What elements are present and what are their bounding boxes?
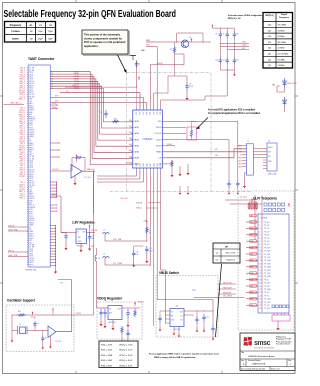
oscillator rail power arrow — [32, 311, 34, 315]
cap bank top cap 1 — [219, 31, 221, 34]
svg-text:Y1: Y1 — [19, 324, 21, 326]
svg-text:C4: C4 — [138, 64, 140, 66]
regulator input cap C30 — [61, 232, 66, 234]
svg-text:C17: C17 — [222, 60, 225, 62]
svg-text:D6: D6 — [129, 156, 131, 158]
wire NXT from connector to PHY top pin 4 — [50, 103, 147, 109]
svg-text:Q1: Q1 — [189, 37, 191, 39]
svg-text:This portion of the schematic: This portion of the schematic — [84, 33, 121, 37]
regulator output cap C31 — [89, 233, 91, 237]
series resistor R10 on data line — [112, 120, 119, 122]
svg-text:RXD2: RXD2 — [29, 176, 33, 178]
svg-text:NET: NET — [250, 247, 253, 249]
connector J1 body — [28, 65, 50, 267]
svg-text:NC1: NC1 — [29, 152, 32, 154]
svg-text:5V0_VBUS: 5V0_VBUS — [223, 296, 233, 298]
R12 note leader arrow — [197, 118, 209, 130]
svg-text:NC2: NC2 — [29, 154, 32, 156]
connector J1 left net labels cluster 1 — [19, 68, 25, 101]
svg-text:TXD0: TXD0 — [29, 256, 33, 258]
svg-text:RX_ER: RX_ER — [19, 189, 25, 191]
svg-text:TXD0: TXD0 — [29, 167, 33, 169]
svg-text:TP_NC2: TP_NC2 — [264, 308, 271, 310]
svg-text:1uF: 1uF — [136, 254, 139, 256]
title block divider 2 — [240, 358, 295, 360]
application boundary dash-dot horizontal top — [127, 72, 212, 74]
note box: PHY peripheral application — [84, 32, 130, 56]
svg-text:15: 15 — [260, 267, 262, 269]
svg-text:MDIO_0: MDIO_0 — [19, 114, 25, 116]
output cap C20 — [196, 316, 198, 319]
svg-text:TP_D5: TP_D5 — [264, 238, 269, 240]
svg-text:VBUS_EN: VBUS_EN — [223, 292, 232, 294]
cap C13 on chip-bottom column — [133, 250, 135, 253]
svg-text:C21: C21 — [206, 317, 209, 319]
svg-text:2-3: 2-3 — [216, 260, 219, 262]
svg-text:MINI_USB: MINI_USB — [268, 174, 277, 176]
bundle A junction dots — [90, 127, 103, 165]
svg-text:TXD_1: TXD_1 — [20, 130, 25, 132]
svg-text:Output: Output — [281, 13, 288, 16]
VDDQ feed ferrite bead L3 — [96, 248, 98, 255]
J3 pin labels — [268, 147, 273, 163]
svg-text:R16 = 24k3: R16 = 24k3 — [101, 360, 113, 362]
horizontal wire to ULPI region — [230, 203, 262, 205]
svg-text:SH2: SH2 — [238, 164, 241, 166]
svg-text:VBUS_DET: VBUS_DET — [223, 287, 232, 289]
svg-text:MFP[2:0]: MFP[2:0] — [266, 15, 274, 17]
svg-text:USB3240: USB3240 — [143, 139, 154, 141]
svg-text:Rev: Rev — [289, 360, 292, 362]
svg-text:TX_EN: TX_EN — [29, 247, 34, 249]
svg-text:18: 18 — [260, 276, 262, 278]
svg-text:TP_D4: TP_D4 — [264, 235, 269, 237]
svg-text:OUT: OUT — [118, 309, 121, 311]
svg-text:RX_ER: RX_ER — [19, 141, 25, 143]
svg-text:STP: STP — [146, 112, 148, 115]
svg-text:RX_ER: RX_ER — [19, 176, 25, 178]
svg-text:DATA4: DATA4 — [134, 144, 139, 147]
svg-text:3: 3 — [260, 228, 261, 230]
cap bank top cap 2 — [226, 31, 228, 34]
svg-text:TXD_3: TXD_3 — [20, 143, 25, 145]
svg-text:R16 = 15k8: R16 = 15k8 — [101, 355, 113, 357]
jumper option table — [213, 243, 240, 263]
svg-text:TP10: TP10 — [192, 290, 196, 292]
svg-text:38.4 MHz: 38.4 MHz — [278, 42, 287, 44]
VDDQ regulator U7 body — [108, 306, 122, 320]
VBUS output wire (magenta) — [157, 299, 213, 301]
svg-text:TP_CLK: TP_CLK — [264, 257, 271, 259]
transistor Q1 — [181, 40, 189, 48]
svg-text:D1: D1 — [129, 126, 131, 128]
C12 ground — [145, 258, 148, 263]
svg-text:NC1: NC1 — [29, 240, 32, 242]
application boundary dash-dot horizontal bottom — [110, 191, 250, 193]
svg-text:MDC_0: MDC_0 — [19, 191, 25, 193]
svg-text:NET: NET — [250, 273, 253, 275]
svg-text:VDDQ = 3.0V: VDDQ = 3.0V — [119, 360, 133, 362]
oscillator rail resistor R15 — [17, 314, 26, 316]
svg-text:TXD3: TXD3 — [29, 249, 33, 251]
svg-text:For host applications VBUS of: For host applications VBUS of J2 is to g… — [149, 353, 220, 356]
svg-text:RXD_3: RXD_3 — [20, 81, 25, 83]
C1 top ground — [34, 317, 36, 319]
svg-text:MOD1: MOD1 — [29, 236, 34, 238]
svg-text:DATA5: DATA5 — [134, 150, 139, 153]
connector mid pin stubs — [50, 142, 59, 144]
svg-text:NET: NET — [250, 286, 253, 288]
svg-text:Hauppauge, NY 11788: Hauppauge, NY 11788 — [276, 339, 291, 341]
wire crystal node to gate — [35, 330, 48, 332]
svg-text:TP_DP: TP_DP — [264, 286, 270, 288]
svg-text:DATA1: DATA1 — [134, 126, 139, 129]
bundle A pin numbers at connector — [51, 71, 53, 90]
VDDQ feed wire down — [97, 262, 109, 309]
svg-text:22: 22 — [260, 289, 262, 291]
svg-text:NET: NET — [250, 292, 253, 294]
svg-text:R10: R10 — [114, 119, 117, 121]
svg-text:USB_TACT_L: USB_TACT_L — [10, 101, 22, 104]
L2 wire — [105, 258, 150, 265]
svg-text:CRS_0: CRS_0 — [20, 134, 25, 136]
svg-text:MFP[2:0] = 110: MFP[2:0] = 110 — [228, 18, 241, 20]
resistor R8 vertical — [146, 226, 148, 234]
svg-text:TXD3: TXD3 — [29, 72, 33, 74]
svg-text:SH1: SH1 — [238, 161, 241, 163]
svg-text:0.1uF: 0.1uF — [189, 86, 193, 88]
svg-text:DUPLX: DUPLX — [29, 198, 34, 200]
bundle A net name labels — [74, 70, 79, 90]
svg-text:COL: COL — [29, 101, 32, 103]
regulator input cap ground — [65, 241, 67, 246]
svg-text:RXD_2: RXD_2 — [20, 83, 25, 85]
svg-text:13 MHz: 13 MHz — [278, 65, 285, 67]
svg-text:TP_SPK: TP_SPK — [264, 273, 271, 275]
svg-text:1k: 1k — [149, 233, 151, 235]
svg-text:16: 16 — [260, 270, 262, 272]
svg-text:R8: R8 — [149, 230, 151, 232]
svg-text:22pF: 22pF — [38, 31, 43, 33]
connector J1 left net labels cluster 3 — [19, 182, 25, 200]
right pin 5 stub VDD33 — [164, 145, 175, 147]
PHY bottom pin wires going left — [97, 171, 143, 183]
svg-text:RXD0: RXD0 — [29, 92, 33, 94]
black ground bar above chip — [130, 55, 136, 57]
svg-text:MOD1: MOD1 — [29, 147, 34, 149]
svg-text:VBAT: VBAT — [146, 39, 150, 42]
svg-text:9.6 MHz: 9.6 MHz — [278, 59, 286, 61]
svg-text:NET: NET — [250, 305, 253, 307]
svg-text:DATA6: DATA6 — [134, 157, 139, 160]
svg-text:L1: L1 — [103, 230, 105, 232]
svg-text:OUT: OUT — [180, 312, 183, 314]
svg-text:R16 = 12k7: R16 = 12k7 — [101, 350, 113, 352]
svg-text:EN: EN — [171, 316, 173, 318]
junction on VDD line — [146, 240, 147, 241]
svg-text:TXD_3: TXD_3 — [20, 108, 25, 110]
svg-text:Selectable Frequency 32-pin QF: Selectable Frequency 32-pin QFN Evaluati… — [4, 9, 177, 20]
svg-text:CLK_OUT: CLK_OUT — [120, 198, 128, 200]
svg-text:COL: COL — [29, 189, 32, 191]
VDDQ input cap ground — [99, 321, 102, 326]
crystal left wire — [12, 315, 18, 331]
title block divider 3 — [240, 366, 295, 368]
svg-text:5: 5 — [260, 235, 261, 237]
svg-text:RXD_0: RXD_0 — [20, 119, 25, 121]
wire feed to PHY top pin 1 — [65, 87, 137, 108]
note box 1 leader arrow — [118, 55, 126, 72]
VDDQ in cap 2 — [104, 309, 106, 312]
svg-text:TXCLK: TXCLK — [20, 117, 26, 119]
svg-text:C31: C31 — [92, 236, 95, 238]
switch output wire — [184, 310, 213, 312]
svg-text:TXD2: TXD2 — [29, 251, 33, 253]
svg-text:R15: R15 — [18, 311, 21, 313]
vertical above pin 1 to ground bar — [136, 60, 138, 87]
svg-text:TP_XI: TP_XI — [264, 295, 269, 297]
svg-text:MDC_0: MDC_0 — [19, 99, 25, 101]
svg-text:MOD0: MOD0 — [29, 238, 34, 240]
svg-text:IN: IN — [171, 312, 173, 314]
svg-text:C1: C1 — [37, 323, 39, 325]
title block size/doc cells — [245, 359, 247, 367]
svg-text:MOD0: MOD0 — [29, 150, 34, 152]
SMSC logo red icon — [243, 337, 252, 346]
svg-text:TP_GN2: TP_GN2 — [264, 299, 271, 301]
top power rail wire — [160, 41, 211, 43]
svg-text:TXD3: TXD3 — [29, 161, 33, 163]
RBIAS resistor R14 — [171, 160, 173, 168]
audio wire junctions — [220, 43, 221, 44]
VBAT label wire upper — [146, 41, 160, 43]
svg-text:C7: C7 — [189, 84, 191, 86]
svg-text:MOD2: MOD2 — [29, 234, 34, 236]
svg-text:TP_D1: TP_D1 — [264, 225, 269, 227]
svg-text:TP_VDA: TP_VDA — [264, 259, 271, 262]
switch output down wire — [212, 300, 214, 326]
J2 pin stubs — [242, 146, 246, 167]
svg-text:STP: STP — [136, 112, 138, 115]
buffer ground — [74, 176, 76, 181]
connector lower pin stubs with junctions — [50, 181, 57, 197]
C13 ground — [132, 262, 135, 267]
cap bank bottom cap 2 — [226, 57, 228, 60]
svg-text:26: 26 — [260, 302, 262, 304]
svg-text:RX_DV: RX_DV — [19, 90, 25, 92]
svg-text:RSEL: RSEL — [29, 143, 33, 145]
J2 pin labels — [237, 146, 242, 169]
svg-text:D5: D5 — [129, 150, 131, 152]
switch IC U3 body — [170, 309, 184, 327]
svg-text:24 MHz: 24 MHz — [278, 30, 285, 32]
svg-text:MIC2025: MIC2025 — [174, 329, 181, 331]
svg-text:TP_D6: TP_D6 — [264, 241, 269, 243]
svg-text:ULPI Testpoints: ULPI Testpoints — [253, 197, 277, 201]
svg-text:Phone: (631) 435-6000: Phone: (631) 435-6000 — [276, 341, 292, 343]
svg-text:VDD33: VDD33 — [156, 145, 162, 147]
regulator ground stub — [80, 244, 82, 248]
oscillator rail power arrow 2 — [52, 312, 54, 316]
wire from connector area down to 1.8V regulator — [50, 195, 61, 197]
svg-text:18pF: 18pF — [48, 38, 53, 40]
svg-text:VDD33: VDD33 — [156, 127, 162, 129]
svg-text:DATA0: DATA0 — [74, 87, 79, 90]
svg-text:19.2MHz: 19.2MHz — [11, 31, 21, 33]
svg-text:RXCLK: RXCLK — [19, 110, 25, 112]
svg-text:L3: L3 — [98, 258, 100, 260]
ground below connector bus — [55, 267, 57, 269]
capacitor bank top rail — [212, 27, 234, 29]
svg-text:RXD_2: RXD_2 — [20, 167, 25, 169]
testpoint header pins and labels — [246, 222, 272, 310]
svg-text:TXD1: TXD1 — [29, 253, 33, 255]
svg-text:TX_ER: TX_ER — [29, 68, 35, 70]
lower ground pair B — [187, 186, 189, 191]
connector J1 left net labels cluster 2 — [19, 108, 26, 179]
svg-text:SH3: SH3 — [238, 167, 241, 169]
svg-text:COL_0: COL_0 — [20, 163, 25, 165]
svg-text:TXD1: TXD1 — [29, 77, 33, 79]
svg-text:TP_DIR: TP_DIR — [264, 254, 271, 256]
svg-text:VDD_33A: VDD_33A — [113, 238, 122, 241]
svg-text:RXD_2: RXD_2 — [20, 132, 25, 134]
switch right pin stub 2 — [184, 315, 193, 316]
svg-text:Frequency: Frequency — [279, 17, 290, 19]
chip top riser pin 6 — [153, 93, 155, 108]
svg-text:RX_ER: RX_ER — [29, 96, 35, 98]
svg-text:R16 = 7k75: R16 = 7k75 — [101, 345, 113, 347]
svg-text:R7: R7 — [170, 49, 172, 51]
svg-text:CLKOUT: CLKOUT — [52, 169, 59, 171]
svg-text:RX_ER: RX_ER — [19, 92, 25, 94]
connector bottom bus stubs — [50, 225, 56, 267]
svg-text:VDDQ Regulator: VDDQ Regulator — [97, 297, 123, 301]
top-left configuration table — [5, 22, 56, 43]
USB A connector J3 body — [267, 143, 277, 171]
PHY IC U1 right pins — [154, 121, 164, 166]
wire VDD18 into transistor branch — [150, 54, 184, 65]
chip right area ground 2 — [179, 166, 181, 171]
svg-text:RXD1: RXD1 — [29, 178, 33, 180]
svg-text:CRS: CRS — [29, 187, 32, 189]
testpoint header J4 body — [258, 214, 289, 313]
svg-text:Schematic shows 9.6 MHz config: Schematic shows 9.6 MHz configuration — [228, 14, 262, 17]
svg-text:4: 4 — [260, 231, 261, 233]
svg-text:JP2: JP2 — [272, 85, 275, 87]
svg-text:Host / OTG: Host / OTG — [226, 252, 236, 255]
connector lower pin stubs group 2 — [50, 204, 57, 211]
VDD label wire lower — [146, 47, 157, 109]
svg-text:RX_ER: RX_ER — [29, 185, 35, 187]
connector J1 lower-left pin group — [8, 224, 28, 257]
svg-text:+1.8V: +1.8V — [143, 221, 147, 223]
svg-text:7: 7 — [260, 241, 261, 243]
svg-text:VDD18: VDD18 — [29, 220, 34, 222]
svg-text:20: 20 — [260, 283, 262, 285]
svg-text:OUT: OUT — [82, 232, 86, 234]
svg-text:TXD2: TXD2 — [29, 74, 33, 76]
svg-text:TXCLK: TXCLK — [20, 152, 26, 154]
VDDQ output wire (magenta) — [122, 307, 140, 309]
svg-text:NET: NET — [250, 228, 253, 230]
svg-text:RST_N: RST_N — [29, 116, 34, 118]
buffer output wire REFCLK — [82, 170, 95, 172]
PHY IC U1 top pins — [136, 108, 162, 115]
ferrite bead L1 — [103, 232, 110, 234]
svg-text:TXD_2: TXD_2 — [20, 136, 25, 138]
PHY bottom pin wires going down — [147, 171, 166, 327]
transistor collector resistor R7 — [173, 46, 175, 54]
svg-text:RXD2: RXD2 — [29, 264, 33, 266]
svg-text:MOD2: MOD2 — [29, 145, 34, 147]
svg-text:COL_0: COL_0 — [20, 96, 25, 98]
long vertical wire right-center 2 — [261, 195, 263, 312]
svg-text:TP_DM: TP_DM — [264, 283, 270, 285]
svg-text:23: 23 — [260, 292, 262, 294]
cap C3 mid ground — [31, 316, 36, 318]
testpoint pad grid row 2 — [264, 209, 285, 212]
wire VBUS to ULPI testpoint area — [194, 297, 245, 299]
svg-text:C10: C10 — [236, 34, 239, 36]
svg-text:RXD_1: RXD_1 — [20, 187, 25, 189]
svg-text:Peripheral: Peripheral — [226, 259, 235, 262]
J2 ground wire — [245, 173, 247, 183]
svg-text:TAMT Connector: TAMT Connector — [28, 57, 55, 61]
title block outer box — [240, 333, 295, 371]
PHY right pin wires — [164, 127, 186, 129]
PHY IC U1 left pins — [131, 120, 139, 166]
svg-text:RXD2: RXD2 — [29, 88, 33, 90]
junction on L2 line — [150, 264, 151, 265]
svg-text:19.2 MHz: 19.2 MHz — [278, 25, 287, 27]
svg-text:STP: STP — [160, 112, 162, 115]
svg-text:VDDQ = 3.3V: VDDQ = 3.3V — [119, 365, 133, 367]
svg-text:26 MHz: 26 MHz — [278, 36, 285, 38]
svg-text:J3: J3 — [268, 141, 270, 143]
svg-text:TX_EN: TX_EN — [29, 158, 34, 160]
svg-text:TST1: TST1 — [29, 125, 33, 127]
PHY IC U1 left pin net labels — [126, 120, 132, 164]
svg-text:24.576 MHz: 24.576 MHz — [278, 54, 289, 56]
riser C7 jog — [168, 76, 175, 93]
svg-text:NET: NET — [250, 260, 253, 262]
svg-text:TP_RBS: TP_RBS — [264, 289, 271, 291]
svg-text:RXD3: RXD3 — [29, 174, 33, 176]
svg-text:TXD_2: TXD_2 — [20, 172, 25, 174]
wire from D2 down — [284, 107, 286, 112]
power arrow on chip riser — [138, 76, 140, 80]
connector pins PPU1 PPU0 — [50, 104, 57, 106]
USB mini-B connector J2 body — [246, 144, 253, 175]
bus wires from connector to PHY (bundle A) — [50, 72, 132, 165]
svg-text:25: 25 — [260, 299, 262, 301]
output cap C22 on down wire — [212, 325, 214, 328]
svg-text:MDC_0: MDC_0 — [19, 156, 25, 158]
svg-text:28: 28 — [260, 308, 262, 310]
output cap C21 — [203, 314, 205, 317]
switch ground stubs — [173, 327, 175, 332]
svg-text:SPD10: SPD10 — [29, 108, 34, 110]
bypass cap C7 — [186, 82, 188, 86]
svg-text:shows components needed for: shows components needed for — [84, 36, 122, 40]
svg-text:For host/OTG applications R12: For host/OTG applications R12 is install… — [208, 108, 256, 111]
svg-text:VDDQ = 1.8V: VDDQ = 1.8V — [119, 345, 133, 347]
svg-text:D2: D2 — [129, 132, 131, 134]
svg-text:VDD18: VDD18 — [157, 63, 163, 65]
regulator output power arrow — [89, 229, 91, 233]
crystal right wire — [27, 330, 35, 332]
